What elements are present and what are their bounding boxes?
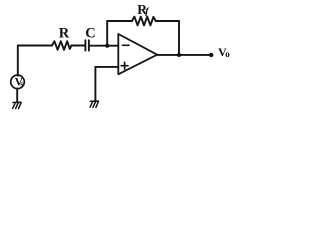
wire output: [157, 54, 211, 56]
svg-text:f: f: [145, 7, 149, 17]
op-amp plus sign: [121, 62, 128, 69]
wire feedback top left: [107, 20, 132, 22]
wire source top vertical: [17, 46, 19, 76]
svg-text:o: o: [225, 49, 230, 59]
voltage source Vs circle: [11, 75, 25, 89]
wire noninverting input: [95, 66, 118, 68]
wire input horizontal: [18, 45, 52, 47]
resistor Rf: [132, 17, 156, 26]
wire C to op-amp inverting input: [90, 45, 119, 47]
ground under source: [13, 102, 22, 108]
wire feedback top right: [156, 20, 179, 22]
capacitor C: [85, 40, 89, 50]
ground under noninverting input: [90, 101, 99, 107]
op-amp minus sign: [123, 44, 130, 46]
wire R to C: [71, 45, 84, 47]
wire feedback right vertical: [178, 21, 180, 55]
node output terminal: [209, 53, 213, 57]
svg-text:R: R: [59, 25, 70, 41]
wire source to ground stub: [16, 88, 18, 102]
wire noninverting to ground vertical: [94, 67, 96, 101]
node junction at output: [177, 53, 181, 57]
op-amp U1: [118, 34, 157, 74]
wire feedback left vertical: [106, 21, 108, 46]
svg-text:C: C: [85, 25, 95, 41]
node junction at inverting input: [105, 44, 109, 48]
svg-text:s: s: [20, 80, 23, 89]
resistor R: [52, 41, 71, 50]
